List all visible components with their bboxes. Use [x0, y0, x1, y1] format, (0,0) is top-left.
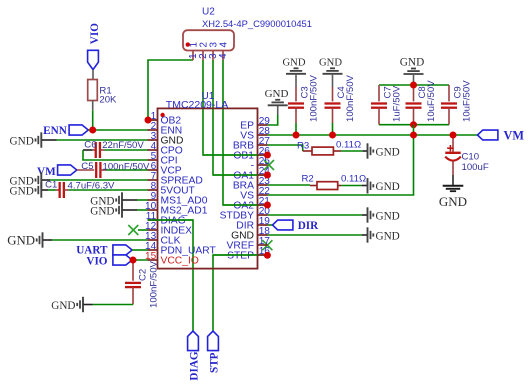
C9 labels 10uF/50V: [453, 80, 473, 122]
pin 22 VS: [240, 186, 270, 202]
wire over DIAG name: [148, 219, 194, 221]
pin 11 DIAG: [146, 211, 186, 227]
ground GND at pin18: [368, 227, 400, 242]
capacitor C8: [406, 85, 422, 125]
pin 23 BRA: [233, 176, 271, 192]
svg-text:C1: C1: [45, 179, 57, 190]
junction C10 / VM rail: [450, 132, 457, 139]
svg-text:0.11Ω: 0.11Ω: [341, 174, 366, 185]
wire bottom bus C7-C9: [379, 124, 449, 126]
wire pin20 STDBY to GND: [267, 214, 367, 216]
junction C3/rail: [293, 132, 300, 139]
ground GND at pin20: [368, 207, 400, 222]
ground GND at R2: [368, 178, 400, 193]
pin 21 OA2: [233, 196, 270, 212]
pin 24 OA1: [233, 166, 270, 182]
svg-text:4: 4: [218, 42, 229, 48]
svg-text:GND: GND: [439, 194, 467, 209]
pin 10 MS2_AD1: [145, 201, 208, 217]
junction pin26/OB1: [264, 152, 271, 159]
pin 3 GND: [148, 131, 184, 147]
junction pin16/STEP: [264, 252, 271, 259]
wire C6 to pin4: [105, 149, 148, 151]
wire over OB1 name: [203, 154, 258, 156]
wire GND to pin3: [57, 139, 148, 141]
wire U2.3 to U1 pin24 OA1: [213, 60, 267, 175]
svg-text:R2: R2: [302, 174, 314, 185]
junction node ENN/R1: [89, 127, 96, 134]
wire VIO to pin15 VCC_IO: [131, 259, 148, 261]
C2 labels 100nF/50V: [137, 260, 159, 308]
svg-text:20K: 20K: [99, 95, 117, 106]
pin 6 VCP: [148, 161, 182, 177]
junction top bus / GND: [410, 82, 417, 89]
svg-text:DIR: DIR: [298, 220, 319, 232]
ground GND at C4: [319, 58, 342, 88]
IC U1 TMC2209-LA body: [158, 108, 258, 268]
svg-text:XH2.54-4P_C9900010451: XH2.54-4P_C9900010451: [202, 18, 312, 29]
wire pin18 GND to GND: [267, 234, 367, 236]
U1 value label TMC2209-LA: [166, 99, 228, 111]
svg-text:GND: GND: [400, 57, 424, 69]
svg-text:VIO: VIO: [89, 23, 101, 44]
svg-text:VM: VM: [504, 129, 525, 143]
svg-text:100nF/50V: 100nF/50V: [345, 74, 356, 122]
svg-text:GND: GND: [376, 230, 400, 242]
ground GND at pin3: [10, 132, 57, 147]
pin 18 GND: [231, 226, 270, 242]
C10 labels 100uF: [462, 152, 489, 173]
capacitor C5: [77, 162, 106, 178]
junction pin24/OA1: [264, 172, 271, 179]
power flag VIO at pin15: [86, 255, 132, 268]
U1 reference label: [202, 91, 215, 102]
no-connect X at pin12: [128, 225, 138, 235]
svg-text:10uF/50V: 10uF/50V: [461, 80, 472, 122]
wire pin12 INDEX stub: [138, 229, 148, 231]
wire pin16 STEP to STP flag: [213, 255, 267, 331]
wire over OA1 name: [213, 174, 258, 176]
svg-text:DIAG: DIAG: [189, 351, 201, 381]
pin 25 -: [251, 156, 271, 172]
pin 29 EP: [240, 116, 270, 132]
wire VM rail from pin28 VS: [267, 134, 477, 136]
U2 value label XH2.54-4P_C9900010451: [202, 18, 312, 29]
wire pin23 BRA to R2: [267, 184, 310, 186]
C5 labels 100nF/50V: [81, 161, 150, 172]
svg-text:STP: STP: [209, 352, 221, 373]
ground GND at C2: [51, 297, 92, 312]
pin 14 PDN_UART: [145, 241, 217, 257]
wire C5 to pin6 VCP: [106, 169, 148, 171]
R3 labels 0.11Ω: [297, 140, 361, 152]
junction pin1/OB2: [145, 117, 152, 124]
net flag STP (bottom): [208, 331, 221, 373]
pin 27 BRB: [233, 136, 271, 152]
C6 labels 22nF/50V: [84, 140, 144, 151]
no-connect X at pin25: [264, 160, 274, 170]
power flag VIO (top): [88, 23, 101, 70]
svg-text:10uF/50V: 10uF/50V: [426, 80, 437, 122]
wire over STEP name: [213, 254, 258, 256]
pin 17 VREF: [227, 236, 271, 252]
svg-text:0.11Ω: 0.11Ω: [336, 140, 361, 151]
svg-text:15: 15: [145, 251, 157, 262]
net flag DIR: [273, 220, 320, 232]
svg-text:C2: C2: [137, 269, 148, 281]
capacitor C10 polarized: [445, 135, 461, 186]
svg-text:GND: GND: [319, 58, 342, 69]
wire pin11 DIAG to DIAG flag: [148, 220, 194, 331]
pin 19 DIR: [236, 216, 270, 232]
svg-text:GND: GND: [283, 58, 306, 69]
ground GND at C1: [10, 182, 48, 197]
wire VIO to R1: [92, 70, 94, 80]
net flag ENN: [43, 125, 88, 137]
pin 13 CLK: [145, 231, 181, 247]
svg-text:GND: GND: [376, 146, 400, 158]
pin 8 5VOUT: [148, 181, 196, 197]
wire C6 to pin5 CPI: [83, 150, 148, 160]
svg-text:1uF/50V: 1uF/50V: [391, 85, 402, 122]
ground GND at pin13 CLK: [7, 232, 52, 247]
C8 labels 10uF/50V: [417, 80, 437, 122]
svg-text:C5: C5: [81, 161, 93, 172]
wire over OA2 name: [223, 204, 258, 206]
wire U2.2 to U1 pin26 OB1: [203, 60, 267, 155]
svg-text:4: 4: [218, 53, 229, 59]
wire R3 to GND: [341, 150, 367, 152]
net flag DIAG (bottom): [188, 331, 201, 381]
wire GND to pin13: [52, 239, 148, 241]
capacitor C4: [325, 87, 341, 123]
ground GND at C10: [439, 186, 467, 209]
svg-text:VCC_IO: VCC_IO: [161, 256, 199, 267]
ground GND at EP: [265, 88, 289, 105]
wire C1 to pin8 5VOUT: [69, 189, 148, 191]
svg-text:U2: U2: [202, 7, 215, 18]
capacitor C6: [83, 142, 105, 158]
wire UART to pin14 PDN_UART: [132, 249, 147, 251]
svg-text:GND: GND: [376, 181, 400, 193]
svg-text:STEP: STEP: [227, 251, 254, 262]
pin 12 INDEX: [145, 221, 192, 237]
U2 reference label: [202, 7, 215, 18]
capacitor C7: [371, 85, 387, 125]
ground GND at R3: [368, 143, 400, 158]
ground GND at pin10 MS2_AD1: [90, 202, 147, 217]
svg-text:GND: GND: [376, 210, 400, 222]
wire C4 to VM rail: [332, 123, 334, 135]
net flag VM (left): [37, 165, 77, 178]
pin 4 CPO: [148, 141, 183, 157]
svg-text:100uF: 100uF: [462, 162, 489, 173]
no-connect X at pin17 VREF: [262, 240, 272, 250]
wire top bus C7-C9: [379, 84, 449, 86]
pin 26 OB1: [233, 146, 270, 162]
svg-text:VM: VM: [37, 166, 56, 178]
wire C2 to GND: [93, 304, 134, 306]
svg-text:C6: C6: [84, 140, 96, 151]
pin 16 STEP: [227, 246, 270, 262]
svg-text:R3: R3: [297, 140, 309, 151]
R2 labels 0.11Ω: [302, 174, 367, 185]
wire pin19 to DIR flag: [267, 224, 272, 226]
svg-text:100nF/50V: 100nF/50V: [309, 74, 320, 122]
connector U2 XH2.54-4P: [183, 30, 234, 60]
svg-text:ENN: ENN: [43, 125, 67, 137]
junction node pin15/C2: [130, 257, 137, 264]
junction C4/rail: [329, 132, 336, 139]
junction bottom bus / C8: [410, 121, 417, 128]
svg-text:GND: GND: [265, 88, 289, 100]
C7 labels 1uF/50V: [383, 85, 403, 122]
pin 7 SPREAD: [148, 171, 203, 187]
resistor R2: [310, 182, 341, 190]
svg-text:GND: GND: [10, 185, 34, 197]
C4 labels 100nF/50V: [336, 74, 356, 122]
wire ENN to pin2: [88, 129, 147, 131]
pin 2 ENN: [148, 121, 183, 137]
svg-text:TMC2209-LA: TMC2209-LA: [166, 99, 228, 111]
junction pin21/OA2: [264, 202, 271, 209]
wire pin29 EP to GND: [267, 106, 277, 125]
resistor R1: [88, 80, 117, 106]
ground GND at pin9 MS1_AD0: [90, 192, 147, 207]
wire pin27 BRB to R3: [267, 145, 302, 151]
wire U2.1 to U1 pin1 OB2: [148, 60, 193, 120]
power flag VM (right): [478, 129, 525, 143]
wire R1 to ENN node: [92, 101, 94, 131]
wire GND to pin7 SPREAD: [50, 179, 148, 181]
C3 labels 100nF/50V: [300, 74, 320, 122]
capacitor C1: [48, 182, 69, 198]
net flag UART: [76, 244, 132, 256]
svg-text:GND: GND: [7, 233, 35, 247]
svg-text:GND: GND: [51, 300, 75, 312]
svg-text:GND: GND: [90, 205, 114, 217]
capacitor C3: [288, 87, 304, 123]
pin 5 CPI: [148, 151, 178, 167]
ground GND at C8 group: [400, 57, 424, 85]
pin 1 OB2: [148, 111, 182, 127]
junction C8 branch / VM rail: [410, 132, 417, 139]
pin 28 VS: [240, 126, 270, 142]
wire pin22 VS to VM rail: [267, 125, 413, 195]
wire R2 to GND: [341, 185, 367, 187]
capacitor C9: [441, 85, 457, 125]
wire C3 to VM rail: [295, 123, 297, 135]
svg-text:VIO: VIO: [86, 255, 107, 267]
ground GND at C3: [283, 58, 306, 88]
resistor R3: [303, 147, 341, 155]
wire U2.4 to U1 pin21 OA2: [223, 60, 267, 205]
pin 15 VCC_IO: [145, 251, 199, 267]
svg-text:GND: GND: [10, 135, 34, 147]
pin 9 MS1_AD0: [148, 191, 208, 207]
C1 labels 4.7uF/6.3V: [45, 179, 115, 191]
pin 20 STDBY: [220, 206, 271, 222]
ground GND at pin7: [10, 172, 50, 187]
capacitor C2: [125, 260, 141, 305]
